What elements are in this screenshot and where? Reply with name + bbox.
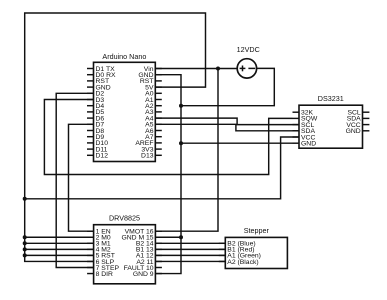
U1 Arduino Nano right pin AREF bbox=[155, 142, 162, 144]
U2 DS3231 left pin VCC bbox=[293, 136, 300, 138]
wire Arduino D7 to DRV8825 EN bbox=[69, 124, 94, 231]
svg-text:D12: D12 bbox=[96, 153, 109, 160]
M1 Stepper pin A1 (Green) bbox=[219, 254, 226, 256]
U3 DRV8825 right pin FAULT 10 bbox=[155, 267, 162, 269]
U2 DS3231 right pin GND bbox=[363, 130, 370, 132]
U1 Arduino Nano right pin A5 bbox=[155, 123, 162, 125]
svg-text:12VDC: 12VDC bbox=[237, 45, 260, 54]
U1 Arduino Nano left pin D10 bbox=[87, 142, 94, 144]
junction GND node at 12VDC minus branch bbox=[179, 104, 183, 108]
wire Arduino D3 to DS3231 SQW bbox=[44, 100, 292, 175]
wire GND net: Arduino GND pin down right of body to DRV8825 GND 9 bbox=[155, 75, 181, 274]
U1 Arduino Nano right pin A1 bbox=[155, 99, 162, 101]
U1 Arduino Nano right pin RST bbox=[155, 80, 162, 82]
U3 DRV8825 body bbox=[94, 225, 156, 284]
wire DRV8825 B1 to Stepper B1 (Red) bbox=[155, 248, 225, 250]
U1 Arduino Nano left pin D4 bbox=[87, 105, 94, 107]
U1 Arduino Nano right pin 5V bbox=[155, 86, 162, 88]
U1 Arduino Nano right pin Vin bbox=[155, 68, 162, 70]
U2 DS3231 body bbox=[299, 105, 363, 148]
U1 Arduino Nano left pin D0 RX bbox=[87, 74, 94, 76]
U1 Arduino Nano left pin D11 bbox=[87, 148, 94, 150]
U3 DRV8825 left pin 6 SLP bbox=[87, 260, 94, 262]
U2 DS3231 right pin SCL bbox=[363, 111, 370, 113]
svg-text:DS3231: DS3231 bbox=[318, 94, 344, 103]
svg-text:8 DIR: 8 DIR bbox=[96, 271, 113, 278]
U1 Arduino Nano left pin D2 bbox=[87, 92, 94, 94]
U1 Arduino Nano right pin A4 bbox=[155, 117, 162, 119]
svg-text:D13: D13 bbox=[141, 153, 154, 160]
wire GND to DS3231 GND bbox=[181, 142, 293, 144]
wire 12V+ down to DRV8825 VMOT bbox=[155, 69, 218, 232]
wire Arduino A4 to DS3231 SCL bbox=[155, 118, 299, 125]
wire 5V bus to DRV8825 RST bbox=[25, 254, 94, 256]
U2 DS3231 left pin 32K bbox=[293, 111, 300, 113]
wire 12V+: Arduino Vin to 12VDC plus terminal bbox=[155, 68, 237, 70]
junction 5V bus at M2 branch bbox=[23, 247, 27, 251]
U1 Arduino Nano body bbox=[94, 62, 156, 161]
U1 Arduino Nano right pin A7 bbox=[155, 136, 162, 138]
U3 DRV8825 right pin A1 12 bbox=[155, 254, 162, 256]
U1 Arduino Nano left pin D3 bbox=[87, 99, 94, 101]
U1 Arduino Nano left pin D12 bbox=[87, 154, 94, 156]
U3 DRV8825 right pin B2 14 bbox=[155, 242, 162, 244]
junction 5V bus at RST branch bbox=[23, 253, 27, 257]
junction 5V bus at DS3231 VCC branch bbox=[23, 197, 27, 201]
svg-text:DRV8825: DRV8825 bbox=[109, 214, 140, 223]
svg-text:GND: GND bbox=[346, 128, 361, 135]
wire 5V bus to DRV8825 M0 bbox=[25, 236, 94, 238]
U2 DS3231 left pin SCL bbox=[293, 124, 300, 126]
junction GND node at DS3231 GND branch bbox=[179, 141, 183, 145]
wire GND to 12VDC minus terminal bbox=[181, 68, 274, 105]
U1 Arduino Nano right pin A2 bbox=[155, 105, 162, 107]
M1 Stepper motor body bbox=[225, 237, 287, 268]
V1 plus terminal mark bbox=[240, 67, 246, 69]
U3 DRV8825 left pin 5 RST bbox=[87, 254, 94, 256]
wire DRV8825 B2 to Stepper B2 (Blue) bbox=[155, 242, 225, 244]
U2 DS3231 left pin SQW bbox=[293, 117, 300, 119]
U2 DS3231 right pin SDA bbox=[363, 117, 370, 119]
U1 Arduino Nano left pin D7 bbox=[87, 123, 94, 125]
power source V1 12VDC circle symbol bbox=[237, 59, 256, 78]
M1 Stepper pin A2 (Black) bbox=[219, 260, 226, 262]
M1 Stepper pin B1 (Red) bbox=[219, 248, 226, 250]
junction 12V+ node at Vin wire bbox=[216, 67, 220, 71]
wire 5V bus to DRV8825 M2 bbox=[25, 248, 94, 250]
wire Arduino A5 to DS3231 SDA bbox=[155, 124, 299, 131]
wire GND to DRV8825 GND M 15 bbox=[155, 236, 181, 238]
U1 Arduino Nano left pin RST bbox=[87, 80, 94, 82]
svg-text:A2 (Black): A2 (Black) bbox=[227, 259, 258, 266]
wire 5V bus to DRV8825 M1 bbox=[25, 242, 94, 244]
U1 Arduino Nano right pin D13 bbox=[155, 154, 162, 156]
U1 Arduino Nano left pin D8 bbox=[87, 130, 94, 132]
svg-text:GND 9: GND 9 bbox=[133, 271, 154, 278]
U1 Arduino Nano left pin D6 bbox=[87, 117, 94, 119]
U2 DS3231 left pin GND bbox=[293, 142, 300, 144]
U3 DRV8825 left pin 8 DIR bbox=[87, 273, 94, 275]
U2 DS3231 left pin SDA bbox=[293, 130, 300, 132]
junction 5V bus at M0 branch bbox=[23, 235, 27, 239]
U3 DRV8825 left pin 2 M0 bbox=[87, 236, 94, 238]
U1 Arduino Nano left pin GND bbox=[87, 86, 94, 88]
U1 Arduino Nano left pin D1 TX bbox=[87, 68, 94, 70]
U2 DS3231 right pin VCC bbox=[363, 124, 370, 126]
wire DRV8825 A2 to Stepper A2 (Black) bbox=[155, 260, 225, 262]
U3 DRV8825 left pin 7 STEP bbox=[87, 267, 94, 269]
U1 Arduino Nano right pin A3 bbox=[155, 111, 162, 113]
U3 DRV8825 right pin VMOT 16 bbox=[155, 230, 162, 232]
U1 Arduino Nano right pin 3V3 bbox=[155, 148, 162, 150]
U3 DRV8825 right pin GND M 15 bbox=[155, 236, 162, 238]
M1 Stepper pin B2 (Blue) bbox=[219, 242, 226, 244]
U3 DRV8825 left pin 4 M2 bbox=[87, 248, 94, 250]
svg-text:GND: GND bbox=[301, 141, 316, 148]
svg-text:Arduino Nano: Arduino Nano bbox=[102, 52, 146, 61]
wire 5V bus to DS3231 VCC bbox=[25, 137, 299, 199]
U1 Arduino Nano left pin D5 bbox=[87, 111, 94, 113]
wire 5V net: Arduino 5V pin over top edge and down left side to DRV8825 SLP bbox=[25, 13, 206, 261]
svg-text:Stepper: Stepper bbox=[244, 226, 270, 235]
U3 DRV8825 right pin GND 9 bbox=[155, 273, 162, 275]
U1 Arduino Nano left pin D9 bbox=[87, 136, 94, 138]
junction 5V bus at M1 branch bbox=[23, 241, 27, 245]
V1 minus terminal mark bbox=[248, 67, 255, 69]
U1 Arduino Nano right pin GND bbox=[155, 74, 162, 76]
U3 DRV8825 left pin 3 M1 bbox=[87, 242, 94, 244]
junction GND node at DRV8825 GND M branch bbox=[179, 235, 183, 239]
U3 DRV8825 left pin 1 EN bbox=[87, 230, 94, 232]
U3 DRV8825 right pin A2 11 bbox=[155, 260, 162, 262]
U1 Arduino Nano right pin A6 bbox=[155, 130, 162, 132]
wire DRV8825 A1 to Stepper A1 (Green) bbox=[155, 254, 225, 256]
U3 DRV8825 right pin B1 13 bbox=[155, 248, 162, 250]
wire Arduino D2 to DRV8825 STEP bbox=[56, 93, 93, 267]
U1 Arduino Nano right pin A0 bbox=[155, 92, 162, 94]
